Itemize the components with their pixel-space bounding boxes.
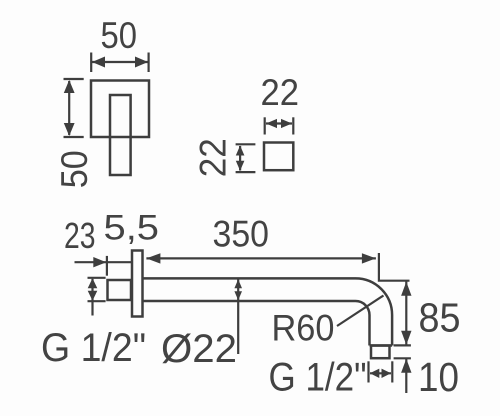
- svg-text:Ø22: Ø22: [161, 327, 237, 371]
- svg-text:G 1/2": G 1/2": [41, 326, 146, 370]
- svg-text:5,5: 5,5: [104, 209, 160, 248]
- svg-text:R60: R60: [272, 308, 335, 349]
- svg-text:50: 50: [54, 150, 95, 188]
- svg-text:50: 50: [101, 15, 138, 56]
- svg-text:G 1/2": G 1/2": [269, 356, 367, 400]
- svg-text:85: 85: [419, 295, 461, 341]
- svg-text:22: 22: [193, 138, 234, 177]
- svg-text:23: 23: [64, 215, 96, 256]
- svg-text:350: 350: [213, 214, 270, 255]
- svg-text:22: 22: [261, 72, 300, 113]
- svg-text:10: 10: [418, 354, 459, 400]
